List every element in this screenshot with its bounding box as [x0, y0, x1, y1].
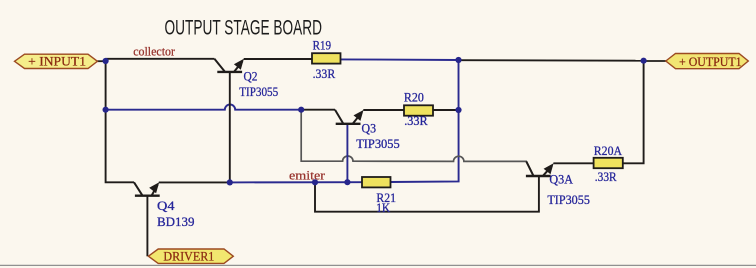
junction node Q2 base / emitter rail [227, 179, 233, 185]
svg-text:+ INPUT1: + INPUT1 [28, 53, 86, 68]
svg-text:1K: 1K [376, 200, 391, 215]
transistor Q2 arrow [234, 59, 244, 70]
resistor R19 [312, 53, 341, 63]
transistor Q3 TIP3055 [335, 110, 362, 124]
wire: Q2 base vertical down to emitter rail [229, 73, 231, 183]
svg-text:emiter: emiter [289, 167, 326, 182]
svg-text:Q2: Q2 [244, 69, 258, 84]
svg-text:OUTPUT STAGE BOARD: OUTPUT STAGE BOARD [165, 16, 323, 39]
wire: Q3A emitter to R20A [553, 162, 593, 164]
resistor R20 [404, 105, 433, 115]
wire: Q3 emitter to R20 [363, 109, 404, 111]
svg-text:DRIVER1: DRIVER1 [163, 249, 214, 264]
svg-text:Q4: Q4 [157, 198, 175, 213]
junction node blue rail left [103, 107, 109, 113]
bottom border line [0, 264, 756, 266]
wire: node 301 down and across to Q3A collector (gray) with two hops [301, 110, 533, 176]
wire: Q4 emitter to junction 230 [159, 181, 230, 183]
wire: +INPUT1 port to junction [96, 60, 106, 62]
resistor R21 [362, 177, 391, 187]
junction node emitter rail / Q3A base branch [312, 179, 318, 185]
transistor Q3A TIP3055 [526, 161, 552, 176]
wire: Q3 collector lead from node 301 [301, 109, 335, 111]
svg-text:Q3A: Q3A [549, 172, 573, 187]
port DRIVER1 [148, 249, 233, 264]
resistor R20A [594, 158, 623, 168]
wire: R19 to node at x=458 (blue net) [340, 58, 458, 61]
svg-text:.33R: .33R [595, 169, 617, 184]
wire: Q2 emitter to R19 [244, 58, 312, 60]
junction node at input [103, 58, 109, 64]
wire: R20A right, to corner 644, up to top rail [623, 61, 644, 164]
junction node Q3 collector [298, 107, 304, 113]
svg-text:R20: R20 [404, 89, 424, 104]
wire: R21 right to corner 458, up to R20 node [390, 60, 458, 182]
svg-text:collector: collector [133, 44, 175, 59]
wire: R20 right to node 458 [433, 109, 459, 111]
svg-text:BD139: BD139 [157, 214, 195, 229]
svg-text:TIP3055: TIP3055 [356, 136, 400, 151]
svg-text:TIP3055: TIP3055 [547, 192, 590, 207]
wire: left vertical from input junction down to Q4 [106, 60, 134, 182]
wire: node 458 to node 644 on top rail [459, 59, 644, 62]
svg-text:TIP3055: TIP3055 [239, 84, 278, 99]
svg-text:+ OUTPUT1: + OUTPUT1 [679, 54, 742, 69]
wire: node 644 to +OUTPUT1 port [644, 60, 667, 62]
transistor Q3 arrow [354, 110, 364, 121]
svg-text:Q3: Q3 [362, 120, 377, 135]
transistor Q4 arrow [149, 182, 159, 193]
svg-text:.33R: .33R [404, 113, 428, 128]
svg-text:R20A: R20A [594, 143, 623, 158]
port +INPUT1 [15, 53, 98, 68]
junction node top rail x644 [641, 58, 647, 64]
wire: top rail junction to Q2 collector [106, 58, 215, 60]
svg-text:R19: R19 [313, 37, 332, 52]
wire: Q4 base down to DRIVER1 [146, 196, 148, 257]
wire: Q3 base vertical down to emitter rail [346, 124, 348, 182]
junction node top rail x458 [455, 57, 461, 63]
transistor Q4 BD139 [134, 182, 160, 195]
svg-text:.33R: .33R [313, 66, 336, 81]
junction node R20 right [455, 107, 461, 113]
junction node Q3 base / emitter rail [344, 179, 350, 185]
wire: emitter rail (blue) junction 230 to R21 [230, 181, 362, 183]
wire: from node 315 down, across, up to Q3A base [315, 176, 539, 212]
transistor Q3A arrow [544, 163, 554, 174]
transistor Q2 TIP3055 [214, 59, 242, 72]
port +OUTPUT1 [666, 54, 749, 69]
wire: blue mid rail y=110 with hop over Q2 base [106, 104, 301, 109]
